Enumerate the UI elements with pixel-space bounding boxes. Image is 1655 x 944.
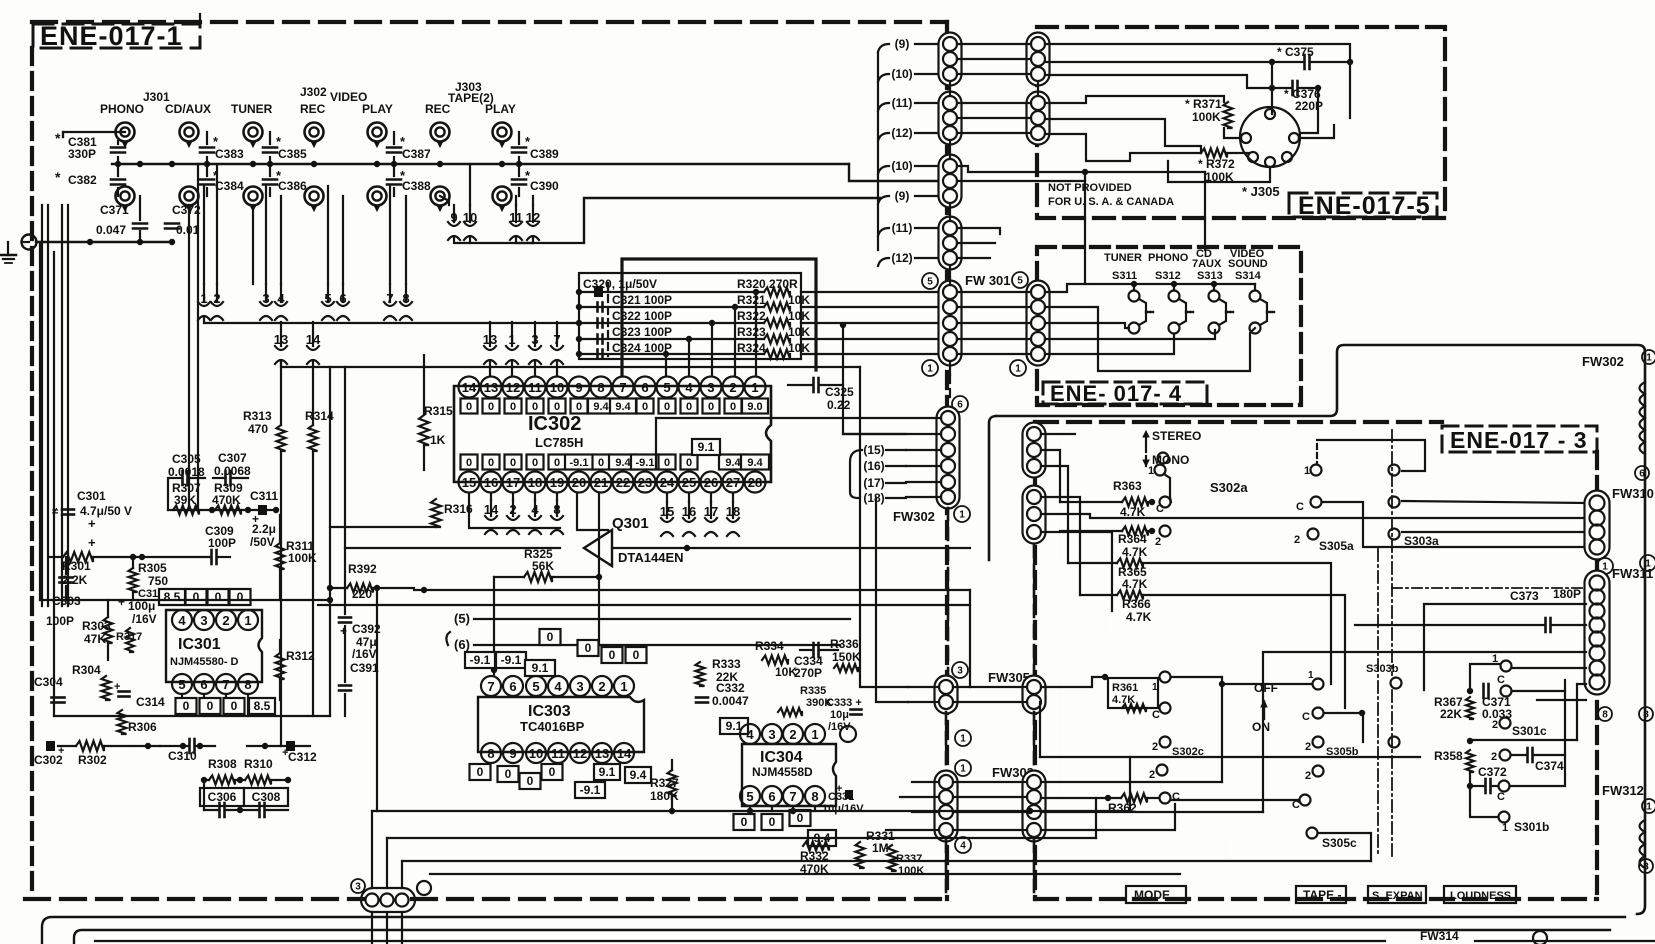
svg-text:0: 0 — [664, 457, 670, 469]
IC302 pin 7 — [613, 377, 634, 398]
svg-text:9: 9 — [509, 746, 516, 761]
IC302 pin 23 — [635, 472, 656, 493]
svg-text:4: 4 — [685, 380, 693, 395]
IC302 pin 3 — [701, 377, 722, 398]
svg-text:R358: R358 — [1434, 749, 1463, 763]
circled 1 fw312 — [1642, 799, 1655, 813]
svg-text:6: 6 — [768, 789, 775, 804]
vertical 1263 — [1262, 653, 1264, 812]
svg-text:(17): (17) — [863, 476, 884, 490]
svg-text:9.4: 9.4 — [615, 401, 631, 413]
value boxes 8.5 0 0 0 — [159, 589, 185, 605]
connector column right group2 — [1027, 92, 1050, 145]
value boxes above IC303 — [540, 629, 561, 645]
verticals right mid — [1129, 757, 1131, 811]
svg-text:1: 1 — [620, 679, 627, 694]
svg-text:NOT PROVIDED: NOT PROVIDED — [1048, 182, 1132, 194]
svg-text:2: 2 — [1149, 769, 1155, 781]
svg-text:+: + — [836, 783, 842, 795]
svg-text:R316: R316 — [444, 502, 473, 516]
svg-text:14: 14 — [617, 746, 632, 761]
svg-text:0: 0 — [505, 767, 512, 781]
vertical 970 — [969, 590, 971, 687]
svg-text:26: 26 — [704, 475, 718, 490]
svg-text:7: 7 — [386, 291, 393, 306]
circled 1 — [954, 506, 970, 522]
svg-text:27: 27 — [726, 475, 740, 490]
svg-text:2: 2 — [1492, 719, 1498, 731]
svg-text:0: 0 — [708, 401, 714, 413]
S305a C elbow — [1323, 502, 1586, 547]
C374 right lead — [1534, 754, 1565, 756]
connector column left group3 — [939, 155, 962, 208]
bottom labels LOUDNESS — [1444, 886, 1516, 903]
svg-text:13: 13 — [274, 332, 288, 347]
svg-text:3: 3 — [355, 882, 361, 893]
dashed center line — [607, 283, 609, 356]
value box 9.4 — [609, 455, 637, 470]
svg-text:9.0: 9.0 — [747, 401, 762, 413]
svg-text:3: 3 — [262, 291, 269, 306]
svg-text:0: 0 — [183, 699, 190, 713]
svg-text:13: 13 — [595, 746, 609, 761]
svg-text:0: 0 — [633, 648, 640, 662]
verticals from phono jacks down left side — [41, 205, 43, 606]
svg-text:0: 0 — [488, 457, 494, 469]
IC303 body — [478, 697, 640, 752]
capacitors C383 C384 — [200, 146, 214, 149]
svg-text:C312: C312 — [288, 750, 317, 764]
bottom labels TAPE — [1296, 886, 1346, 903]
FW305 column left — [935, 676, 958, 714]
board outline ENE-017-1 dashed border — [30, 48, 34, 897]
svg-text:19: 19 — [550, 475, 564, 490]
svg-text:11: 11 — [528, 380, 542, 395]
bottom board outline 1 — [42, 917, 1625, 944]
svg-text:LC785H: LC785H — [535, 435, 583, 450]
svg-text:S303a: S303a — [1404, 534, 1439, 548]
IC303 pin 14 — [614, 743, 634, 763]
svg-text:TC4016BP: TC4016BP — [520, 719, 585, 734]
svg-text:2: 2 — [598, 679, 605, 694]
svg-text:IC302: IC302 — [528, 413, 581, 435]
FW314 wires down — [371, 912, 373, 944]
svg-text:180P: 180P — [1553, 587, 1581, 601]
right edge hatched connector bottom — [1640, 820, 1646, 832]
value box 0 — [483, 399, 500, 414]
FW311 wires — [1392, 587, 1586, 589]
bus under stubs 13 14 — [281, 362, 860, 367]
stubs 13 1 3 7 above IC302 — [489, 322, 491, 346]
svg-text:ENE- 017- 4: ENE- 017- 4 — [1050, 381, 1182, 406]
svg-text:17: 17 — [704, 504, 718, 519]
FW302 connector column left — [937, 407, 960, 509]
svg-text:4.7K: 4.7K — [1122, 545, 1148, 559]
value box 9.4 — [741, 455, 769, 470]
svg-text:STEREO: STEREO — [1152, 429, 1201, 443]
svg-text:ENE-017 - 3: ENE-017 - 3 — [1450, 427, 1588, 453]
svg-text:9.1: 9.1 — [698, 440, 715, 454]
S303a wires — [1402, 501, 1586, 503]
IC302 pin 22 — [613, 472, 634, 493]
value box 0 — [659, 399, 676, 414]
circled 1 fw303 — [955, 730, 971, 746]
wires from stubs to IC302 pins — [489, 362, 491, 376]
svg-text:C: C — [1296, 501, 1304, 513]
IC301 pin leads — [181, 694, 183, 716]
stubs below IC302 pins 16-19 — [490, 493, 492, 500]
jack bottom x=253 — [244, 187, 263, 206]
vertical wire x=1085 — [1084, 172, 1086, 284]
FW305 column right — [1023, 676, 1046, 714]
svg-text:0: 0 — [532, 401, 538, 413]
svg-text:FW302: FW302 — [893, 509, 935, 524]
svg-text:*: * — [55, 130, 61, 146]
svg-text:5: 5 — [1017, 276, 1023, 287]
svg-text:C325: C325 — [825, 385, 854, 399]
FW314 connector bottom — [351, 879, 365, 893]
svg-text:9.4: 9.4 — [725, 457, 741, 469]
svg-text:C323 100P: C323 100P — [612, 325, 672, 339]
svg-text:+: + — [282, 747, 288, 759]
switch bracket S302a — [1164, 474, 1171, 502]
svg-text:100K: 100K — [1192, 110, 1221, 124]
svg-text:C304: C304 — [34, 675, 63, 689]
FW311 connector — [1585, 571, 1610, 695]
wires rows leftward — [578, 291, 580, 293]
svg-text:2: 2 — [789, 727, 796, 742]
svg-text:6: 6 — [200, 677, 207, 692]
FW301 column right — [1027, 281, 1050, 366]
jack top x=125 — [116, 123, 135, 142]
svg-text:S303b: S303b — [1366, 663, 1399, 675]
svg-text:22: 22 — [616, 475, 630, 490]
row wires — [801, 291, 943, 293]
svg-text:8.5: 8.5 — [254, 699, 271, 713]
jack top x=502 — [493, 123, 512, 142]
svg-text:100K: 100K — [898, 865, 924, 877]
thick routing box — [622, 259, 816, 376]
IC304 body — [742, 744, 836, 806]
svg-text:10μ/16V: 10μ/16V — [822, 803, 864, 815]
svg-text:18: 18 — [528, 475, 542, 490]
left bus of network — [578, 292, 580, 354]
svg-text:0: 0 — [510, 457, 516, 469]
switch S314 — [1254, 284, 1256, 290]
cdaux verticals — [188, 205, 190, 510]
stubs 13 14 — [280, 322, 282, 346]
wires R363-R366 — [1060, 501, 1122, 503]
IC301 pin 4 — [172, 610, 192, 630]
svg-text:/16V: /16V — [132, 612, 157, 626]
svg-text:1: 1 — [1492, 653, 1498, 665]
svg-text:PHONO: PHONO — [100, 102, 144, 116]
svg-text:(11): (11) — [892, 221, 913, 235]
svg-text:2: 2 — [729, 380, 736, 395]
svg-text:C: C — [1172, 791, 1180, 803]
svg-text:FW312: FW312 — [1602, 783, 1644, 798]
svg-text:C384: C384 — [215, 179, 244, 193]
left verticals to ground bus — [39, 242, 41, 600]
svg-text:C306: C306 — [208, 790, 237, 804]
wires at FW305/FW303 — [908, 686, 939, 688]
wire — [849, 164, 950, 181]
bus y600 — [40, 599, 330, 601]
svg-text:-9.1: -9.1 — [470, 653, 491, 667]
network box — [579, 273, 801, 359]
svg-text:3: 3 — [957, 666, 963, 677]
svg-text:0: 0 — [730, 401, 736, 413]
svg-text:R363: R363 — [1113, 479, 1142, 493]
svg-text:12: 12 — [573, 746, 587, 761]
svg-text:1: 1 — [508, 332, 515, 347]
svg-text:(9): (9) — [895, 37, 910, 51]
FW303 column left — [935, 771, 958, 842]
S305a wires — [1316, 444, 1318, 463]
svg-text:470K: 470K — [212, 493, 241, 507]
value box 0 — [549, 455, 566, 470]
svg-text:0: 0 — [686, 457, 692, 469]
svg-text:R313: R313 — [243, 409, 272, 423]
svg-text:0: 0 — [488, 401, 494, 413]
pin 20 wire — [577, 493, 608, 530]
svg-text:R335: R335 — [800, 685, 826, 697]
IC302 pin 6 — [635, 377, 656, 398]
IC302 pin 12 — [503, 377, 524, 398]
left bracket spine — [877, 52, 879, 250]
lower buses — [372, 810, 1130, 812]
svg-text:7: 7 — [789, 789, 796, 804]
ENE-017-3 dashed borders — [1035, 420, 1442, 424]
(6) wire — [474, 644, 840, 646]
FW303 left feeds — [912, 781, 939, 783]
svg-text:28: 28 — [748, 475, 762, 490]
IC304 pin 6 — [762, 786, 782, 806]
svg-text:1: 1 — [1308, 670, 1314, 681]
IC304 pin 7 — [783, 786, 803, 806]
svg-text:0: 0 — [207, 699, 214, 713]
svg-text:10K: 10K — [788, 293, 810, 307]
caps C306 C308 symbols — [218, 803, 221, 817]
svg-text:0: 0 — [797, 811, 804, 825]
svg-text:10μ: 10μ — [830, 709, 849, 721]
svg-text:24: 24 — [660, 475, 675, 490]
svg-text:FW310: FW310 — [1612, 486, 1654, 501]
IC302 pin 1 — [745, 377, 766, 398]
svg-text:S302a: S302a — [1210, 480, 1248, 495]
svg-text:(10): (10) — [891, 67, 912, 81]
value box 0 — [681, 455, 698, 470]
circled 4 — [955, 837, 971, 853]
svg-text:C374: C374 — [1535, 759, 1564, 773]
value box 0 — [483, 455, 500, 470]
svg-text:0: 0 — [598, 457, 604, 469]
svg-text:R333: R333 — [712, 657, 741, 671]
wires around RC block — [203, 780, 205, 810]
svg-text:10K: 10K — [788, 309, 810, 323]
svg-text:8: 8 — [811, 789, 818, 804]
svg-text:750: 750 — [148, 574, 168, 588]
svg-text:100P: 100P — [208, 536, 236, 550]
wire R325 to IC303 pin7 — [493, 577, 495, 676]
svg-text:CD/AUX: CD/AUX — [165, 102, 211, 116]
vertical 1105 long — [1045, 547, 1105, 639]
svg-text:Q301: Q301 — [612, 515, 649, 532]
svg-text:3: 3 — [707, 380, 714, 395]
svg-text:14: 14 — [306, 332, 321, 347]
bus under right stubs — [667, 493, 755, 538]
svg-text:0: 0 — [215, 590, 222, 604]
jack bottom x=502 — [493, 187, 512, 206]
svg-text:/16V: /16V — [352, 647, 377, 661]
svg-text:NJM4558D: NJM4558D — [752, 765, 813, 779]
svg-text:TAPE -: TAPE - — [1303, 888, 1341, 902]
svg-text:10: 10 — [529, 746, 543, 761]
svg-text:+: + — [114, 681, 120, 693]
svg-text:2: 2 — [213, 291, 220, 306]
svg-text:3: 3 — [768, 727, 775, 742]
svg-text:ENE-017-1: ENE-017-1 — [40, 21, 183, 51]
caps symbols — [596, 303, 599, 312]
S303c circle — [1389, 737, 1400, 748]
wire tape rec to stubs — [440, 196, 449, 205]
long vertical wires from col2 down — [1059, 434, 1061, 560]
svg-text:0: 0 — [547, 630, 554, 644]
IC302 pin 16 — [481, 472, 502, 493]
svg-text:3: 3 — [531, 332, 538, 347]
dash-dot S303 line — [1391, 430, 1393, 675]
C320 square mark — [594, 286, 603, 297]
IC301 body — [166, 610, 262, 682]
IC302 pin 10 — [547, 377, 568, 398]
jack top x=377 — [368, 123, 387, 142]
svg-text:0: 0 — [477, 765, 484, 779]
value boxes below IC303 — [470, 764, 491, 780]
svg-text:S301b: S301b — [1514, 820, 1549, 834]
IC301 pin 8 — [238, 674, 258, 694]
svg-text:1: 1 — [1304, 465, 1310, 477]
svg-text:15: 15 — [462, 475, 476, 490]
circled 3 fw312 — [1639, 859, 1653, 873]
IC304 right half circle — [840, 726, 856, 742]
svg-text:13: 13 — [483, 332, 497, 347]
wires between columns — [957, 43, 1031, 45]
svg-text:FW311: FW311 — [1612, 566, 1653, 581]
svg-text:14: 14 — [484, 502, 499, 517]
svg-text:6: 6 — [1639, 469, 1645, 480]
vertical 843 — [843, 325, 906, 434]
svg-text:8: 8 — [487, 746, 494, 761]
vertical wire 1090 down — [1089, 181, 1091, 310]
svg-text:12: 12 — [506, 380, 520, 395]
svg-text:R361: R361 — [1112, 682, 1138, 694]
svg-text:R336: R336 — [830, 637, 859, 651]
svg-text:R302: R302 — [78, 753, 107, 767]
svg-text:1: 1 — [1646, 353, 1652, 364]
svg-text:R321: R321 — [737, 293, 766, 307]
jack bottom x=377 — [368, 187, 387, 206]
S301b — [1470, 786, 1497, 817]
IC302 pin 8 — [591, 377, 612, 398]
svg-text:4.7K: 4.7K — [1122, 577, 1148, 591]
IC302 pin 19 — [547, 472, 568, 493]
circled 3 — [952, 662, 968, 678]
svg-text:TUNER: TUNER — [1104, 252, 1142, 264]
svg-text:10K: 10K — [788, 325, 810, 339]
svg-text:9.1: 9.1 — [599, 765, 616, 779]
svg-text:4: 4 — [277, 291, 285, 306]
capacitors C389 C390 — [512, 146, 526, 149]
IC304 pin 2 — [783, 724, 803, 744]
IC303 pin 9 — [503, 743, 523, 763]
resistor zigzags R320-R324 — [764, 288, 790, 297]
FW310 wires — [1041, 514, 1586, 518]
IC303 pin 10 — [526, 743, 546, 763]
svg-text:2.2μ: 2.2μ — [252, 522, 276, 536]
svg-text:C387: C387 — [402, 147, 431, 161]
ENE-017-1 right dashed border — [945, 22, 949, 899]
value boxes under IC301 — [176, 698, 197, 714]
svg-text:S313: S313 — [1197, 270, 1223, 282]
svg-text:3: 3 — [1643, 862, 1649, 873]
svg-text:R314: R314 — [305, 409, 334, 423]
capacitor C306 C308 boxes — [200, 788, 244, 806]
IC302 pin 17 — [503, 472, 524, 493]
wire phono left loop — [63, 132, 125, 137]
IC302 pin 15 — [459, 472, 480, 493]
svg-text:/16V: /16V — [828, 721, 851, 733]
svg-text:4: 4 — [554, 679, 562, 694]
wires right from FW301 into ENE-017-4 — [1045, 279, 1067, 292]
svg-text:0: 0 — [686, 401, 692, 413]
svg-text:7: 7 — [619, 380, 626, 395]
svg-text:1: 1 — [751, 380, 758, 395]
connector column left upper group2 — [939, 92, 962, 145]
connector column left group4 — [939, 217, 962, 270]
svg-text:PHONO: PHONO — [1148, 252, 1189, 264]
value box 0 — [637, 399, 654, 414]
bus under left stubs — [469, 493, 560, 528]
svg-text:0: 0 — [237, 590, 244, 604]
ENE-017-5 dashed box — [1037, 27, 1445, 218]
svg-text:100P: 100P — [46, 614, 74, 628]
capacitors C385 C386 — [263, 146, 277, 149]
svg-text:+: + — [88, 516, 96, 531]
svg-text:-9.1: -9.1 — [580, 783, 601, 797]
svg-text:C308: C308 — [252, 790, 281, 804]
S305b switches — [1313, 737, 1324, 748]
svg-text:R312: R312 — [286, 649, 315, 663]
long bus y=548 — [345, 547, 560, 549]
svg-text:8.5: 8.5 — [164, 590, 181, 604]
IC302 pin 13 — [481, 377, 502, 398]
svg-text:R304: R304 — [72, 663, 101, 677]
svg-text:C371: C371 — [100, 203, 129, 217]
svg-text:(6): (6) — [454, 637, 470, 652]
switch S312 — [1173, 284, 1175, 290]
S305c bottom wire — [1318, 833, 1371, 861]
IC304 pin 8 — [805, 786, 825, 806]
value box 0 — [681, 399, 698, 414]
switch S313 — [1213, 284, 1215, 290]
svg-text:S301c: S301c — [1512, 724, 1547, 738]
svg-text:4.7K: 4.7K — [1126, 610, 1152, 624]
vertical 1222 — [1221, 684, 1223, 782]
left rail verticals — [329, 367, 331, 716]
svg-text:IC301: IC301 — [178, 636, 221, 653]
FW301 column left — [939, 281, 962, 366]
svg-text:FW 301: FW 301 — [965, 273, 1011, 288]
